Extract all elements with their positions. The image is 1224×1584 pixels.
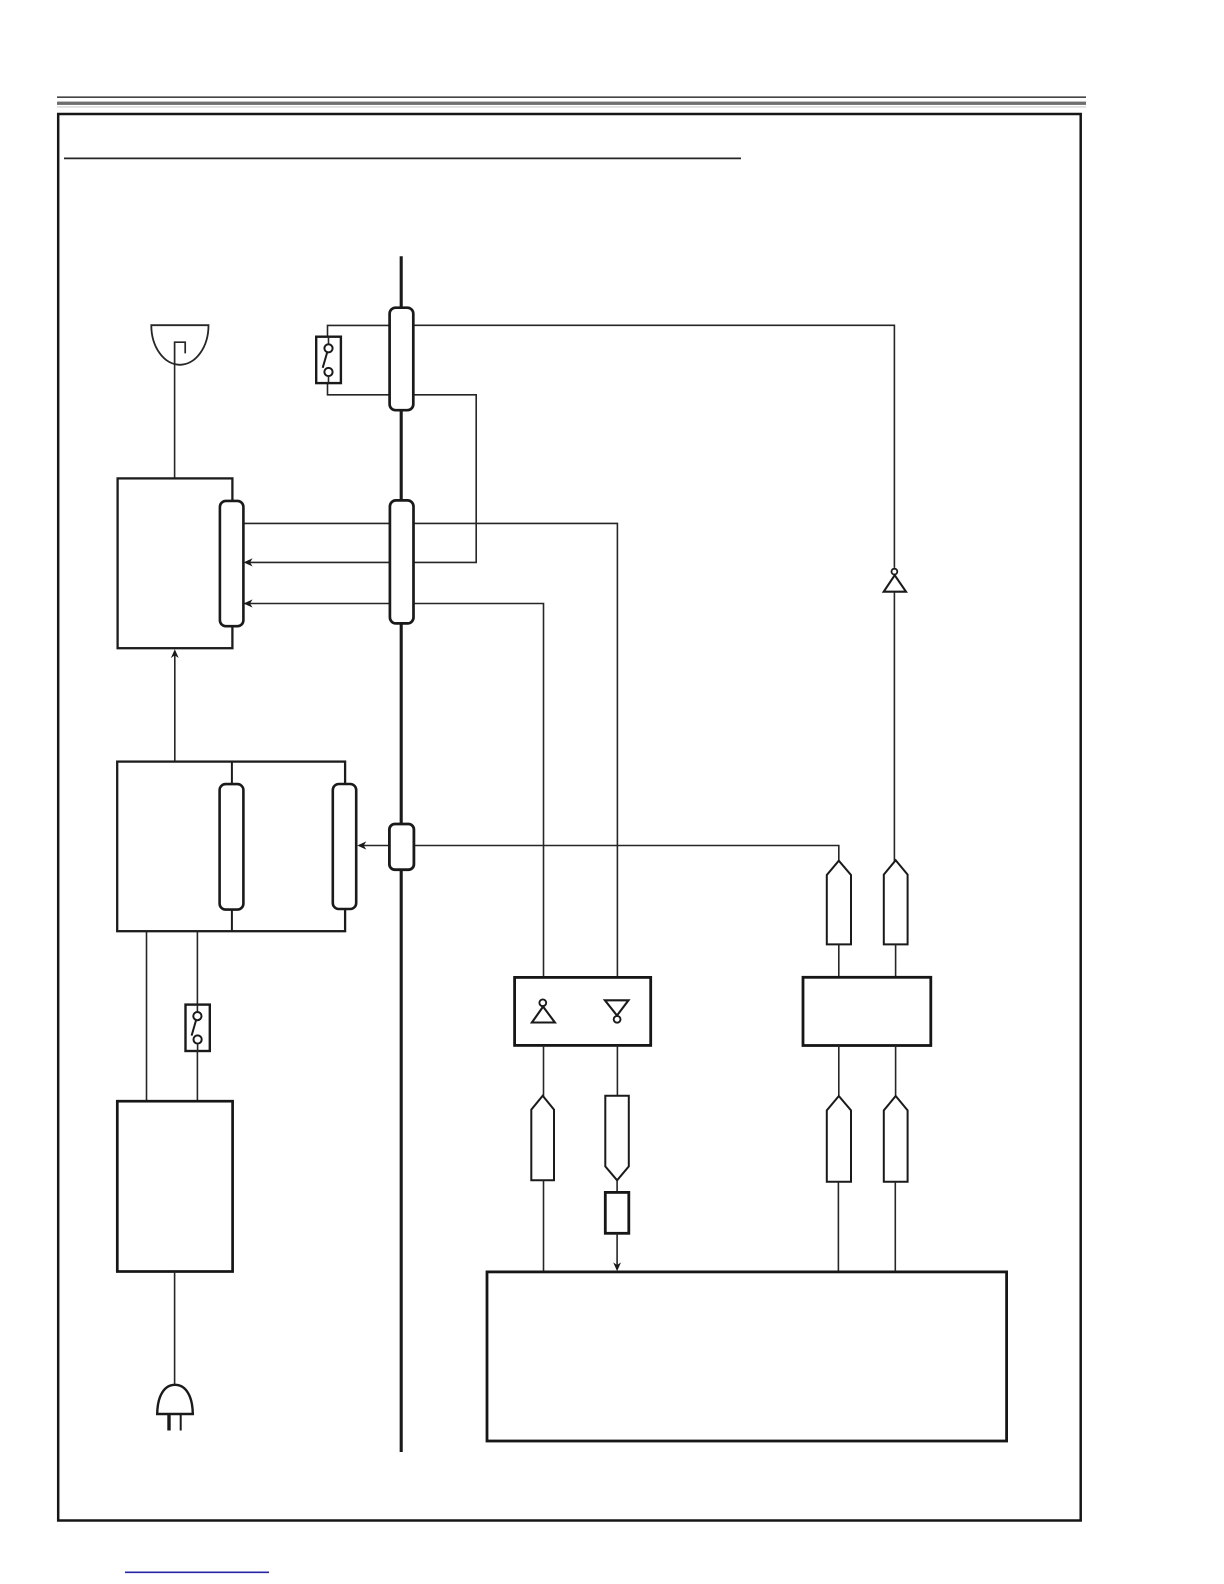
wire: P6 to amplifier box (894, 1182, 896, 1271)
connector J3 on main unit (333, 784, 356, 909)
power unit box (117, 1101, 232, 1271)
wire: switch S2 to power unit (196, 1051, 198, 1101)
AC plug (157, 1385, 193, 1431)
pentagon P5 (point up) (827, 1096, 851, 1182)
relay box (803, 977, 931, 1045)
arrowhead left into J1 lower (244, 599, 253, 607)
arrowhead down into amplifier (613, 1262, 621, 1271)
contact-down symbol in driver box (605, 1000, 629, 1022)
wire: connector CN1 to inverter contact (401, 325, 894, 568)
wire: power unit to AC plug (174, 1272, 176, 1387)
connector CN2 on bus (390, 500, 414, 623)
contact-up symbol in driver box (532, 999, 555, 1022)
resistor block (605, 1192, 629, 1233)
wire: relay box to pentagon P6 (895, 1046, 897, 1098)
main unit divider (231, 762, 233, 932)
header double rule (57, 97, 1086, 107)
connector J1 on control unit (220, 501, 244, 626)
arrowhead up into control unit (171, 649, 179, 658)
inverter contact symbol (884, 569, 906, 592)
amplifier box (487, 1272, 1007, 1441)
connector CN3 on bus (389, 824, 414, 870)
wire: receiver to control unit (174, 364, 176, 478)
main unit box (117, 762, 345, 932)
page frame (58, 114, 1080, 1521)
wire: P1 to amplifier box (543, 1180, 545, 1271)
pentagon P2 (point down) (605, 1096, 629, 1181)
pentagon P3 (point up) (827, 861, 851, 945)
pentagon P1 (point up) (531, 1096, 554, 1181)
wire: connector CN3 to right pentagon P3 (arrow) (359, 846, 839, 863)
control unit box (118, 478, 233, 648)
watermark underline (125, 1571, 269, 1573)
wire: driver box left input to J1 (arrow) (234, 604, 544, 978)
pentagon P6 (point up) (884, 1096, 908, 1182)
wire: inverter contact to pentagon P4 (893, 592, 895, 862)
wire: P3 to relay box (838, 944, 840, 977)
connector J2 on main unit (220, 784, 244, 910)
switch S2 (186, 1005, 210, 1051)
wire: S1 top to connector CN1 (328, 325, 402, 337)
wire: P5 to amplifier box (837, 1182, 839, 1271)
wire: S1 bottom loop to J1 (arrow) (247, 383, 476, 562)
title rule (64, 157, 741, 159)
wire: driver box to pentagon P1 (543, 1045, 545, 1097)
wire: main unit to switch S2 (196, 931, 198, 1004)
switch S1 (316, 337, 341, 383)
arrowhead left into J3 (357, 841, 366, 849)
arrowhead left into J1 upper (244, 558, 253, 566)
bus line (400, 256, 403, 1452)
wire: P4 to relay box (895, 944, 897, 977)
receiver bowl symbol (151, 325, 208, 365)
wire: J1 to driver box right input (234, 523, 617, 977)
wire: resistor block to amplifier (arrow down) (616, 1233, 618, 1268)
wire: relay box to pentagon P5 (838, 1046, 840, 1098)
receiver element hook (175, 342, 186, 364)
wire: main unit to control unit (arrow up) (174, 652, 176, 762)
driver box (515, 977, 651, 1045)
wire: driver box to pentagon P2 (616, 1045, 618, 1096)
pentagon P4 (point up) (884, 860, 908, 944)
connector CN1 on bus (390, 308, 414, 411)
wire: main unit to power unit (left) (146, 931, 148, 1101)
wire: P2 to resistor block (616, 1180, 618, 1192)
